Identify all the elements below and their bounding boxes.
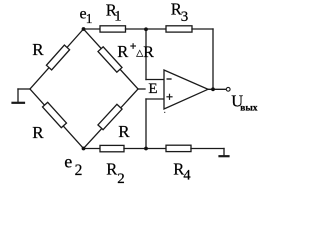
svg-text:R: R — [32, 40, 44, 59]
op-amp minus marker — [167, 78, 171, 80]
wire e1 to R1 — [84, 28, 101, 30]
wire R3 to feedback corner — [192, 28, 213, 30]
wire e2 to R2 — [84, 148, 101, 150]
wire inverting input vertical — [145, 29, 147, 80]
resistor R2 — [100, 145, 124, 151]
wire R1 to R3 — [126, 28, 167, 30]
resistor R4 — [166, 145, 191, 151]
svg-text:R: R — [117, 42, 128, 61]
svg-text:3: 3 — [181, 9, 189, 25]
resistor R+dR (top-right arm) — [98, 47, 122, 72]
wire non-inverting input horizontal — [146, 98, 164, 100]
resistor R (bottom-left arm) — [43, 102, 67, 127]
svg-text:1: 1 — [114, 8, 121, 24]
ground (left) — [13, 102, 25, 104]
svg-text:2: 2 — [117, 171, 125, 187]
svg-text:2: 2 — [75, 162, 83, 179]
svg-text:e: e — [64, 152, 72, 172]
svg-text:△: △ — [136, 47, 143, 57]
resistor R3 — [166, 26, 192, 32]
output terminal — [226, 87, 230, 91]
op-amp plus marker — [167, 96, 172, 98]
wire R4 to right ground — [191, 148, 224, 150]
wire bridge bottom-right edge — [84, 89, 139, 149]
resistor R1 — [100, 26, 126, 32]
svg-text:4: 4 — [183, 168, 191, 184]
node junction R1/R3 — [144, 27, 148, 31]
svg-text:1: 1 — [86, 11, 93, 26]
ground (right) — [220, 155, 229, 157]
wire bridge bottom-left edge — [30, 89, 84, 149]
wire bridge top-right edge — [84, 29, 139, 89]
wire inverting input horizontal — [146, 79, 164, 81]
wire E node — [138, 88, 145, 90]
svg-text:E: E — [148, 81, 157, 97]
node e2 — [82, 147, 86, 151]
wire feedback vertical — [212, 29, 214, 89]
resistor R (top-left arm) — [46, 45, 69, 70]
svg-text:R: R — [118, 122, 130, 141]
wire left vertex to ground — [18, 88, 30, 90]
node e1 — [82, 27, 86, 31]
svg-text:R: R — [32, 123, 44, 142]
svg-text:вых: вых — [240, 104, 258, 114]
resistor R (bottom-right arm) — [98, 104, 122, 129]
svg-text:R: R — [106, 160, 117, 179]
node junction R2/R4 — [144, 147, 148, 151]
wire R2 to R4 — [124, 148, 166, 150]
wire bridge top-left edge — [30, 29, 84, 89]
wire non-inverting input vertical — [145, 99, 147, 149]
op-amp U1 — [164, 70, 208, 109]
wire op-amp output — [208, 88, 226, 90]
svg-text:R: R — [143, 44, 154, 61]
node output junction — [211, 87, 215, 91]
op-amp bottom tick — [164, 112, 165, 113]
